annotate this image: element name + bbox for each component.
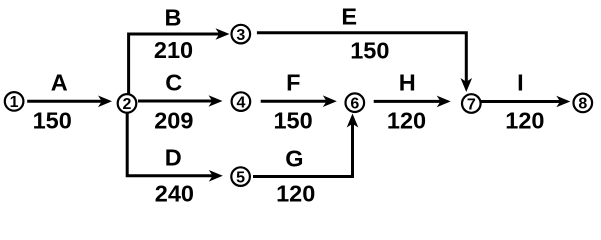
node 1 (5, 92, 24, 111)
svg-text:150: 150 (33, 108, 72, 134)
wire H from node 6 to node 7 (374, 96, 451, 108)
wire I from node 7 to node 8 (478, 96, 570, 108)
node 7 (462, 94, 481, 113)
wire D from node 2 down and right to node 5 (127, 114, 223, 182)
node 8 (574, 94, 593, 113)
svg-text:G: G (285, 146, 303, 172)
svg-text:6: 6 (350, 96, 359, 113)
svg-text:209: 209 (154, 108, 193, 134)
svg-text:120: 120 (505, 108, 544, 134)
node 4 (232, 92, 251, 111)
node 3 (232, 25, 251, 44)
svg-text:210: 210 (154, 37, 193, 63)
svg-text:A: A (51, 70, 68, 96)
wire F from node 4 to node 6 (261, 95, 337, 107)
svg-text:2: 2 (123, 96, 132, 113)
svg-text:D: D (165, 145, 182, 171)
svg-text:8: 8 (578, 96, 587, 113)
svg-text:150: 150 (273, 108, 312, 134)
wire C from node 2 to node 4 (138, 95, 223, 107)
svg-text:1: 1 (10, 94, 19, 111)
svg-text:B: B (165, 5, 182, 31)
svg-text:120: 120 (387, 108, 426, 134)
svg-text:F: F (286, 70, 300, 96)
svg-text:3: 3 (236, 27, 245, 44)
node 6 (346, 93, 365, 112)
svg-text:E: E (341, 3, 357, 29)
wire B from node 2 up and right to node 3 (129, 28, 230, 95)
node 2 (118, 94, 137, 113)
svg-text:120: 120 (276, 181, 315, 207)
node 5 (231, 167, 250, 186)
wire G from node 5 right and up to node 6 (253, 114, 358, 177)
svg-text:4: 4 (236, 94, 245, 111)
svg-text:5: 5 (236, 169, 245, 186)
svg-text:240: 240 (155, 181, 194, 207)
svg-text:7: 7 (467, 96, 476, 113)
wire E from node 3 right and down to node 7 (257, 33, 472, 92)
svg-text:150: 150 (350, 38, 389, 64)
svg-text:C: C (165, 70, 182, 96)
svg-text:I: I (517, 69, 524, 95)
svg-text:H: H (399, 70, 416, 96)
wire A from node 1 to node 2 (27, 96, 112, 108)
